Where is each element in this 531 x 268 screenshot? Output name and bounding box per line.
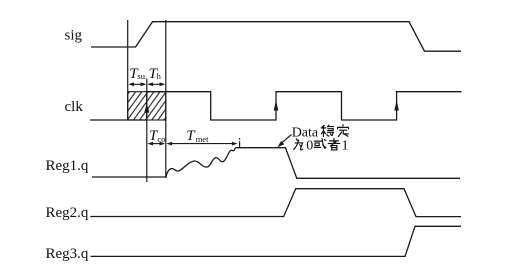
svg-text:sig: sig (65, 28, 83, 44)
svg-text:0: 0 (306, 139, 313, 154)
svg-text:clk: clk (65, 99, 84, 115)
svg-text:Reg2.q: Reg2.q (46, 205, 89, 221)
svg-text:Reg1.q: Reg1.q (46, 158, 89, 174)
svg-text:Reg3.q: Reg3.q (46, 246, 89, 262)
svg-text:1: 1 (342, 139, 349, 154)
svg-text:Data: Data (292, 126, 319, 141)
svg-text:su: su (137, 71, 145, 81)
svg-text:h: h (157, 71, 162, 81)
svg-text:met: met (196, 134, 209, 144)
